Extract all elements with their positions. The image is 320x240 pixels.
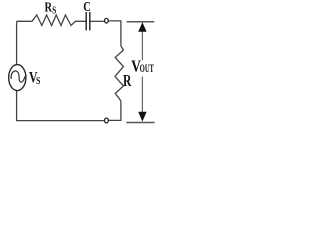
svg-text:C: C (83, 0, 91, 14)
svg-text:VS: VS (29, 69, 40, 87)
svg-text:OUT: OUT (140, 62, 154, 74)
svg-text:RS: RS (45, 0, 57, 16)
